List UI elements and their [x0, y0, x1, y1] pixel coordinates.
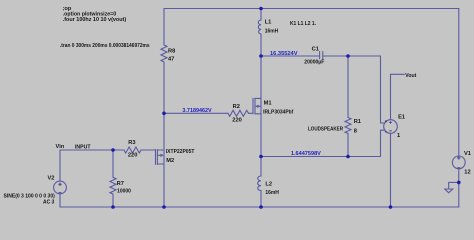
- voltage source V2 circle: [54, 181, 67, 194]
- svg-text:1.6447598V: 1.6447598V: [291, 151, 321, 157]
- resistor R8: [161, 45, 167, 62]
- ground tap wire: [449, 182, 459, 189]
- junction input R7: [111, 148, 115, 152]
- wire M2 drain-source rail: [163, 113, 165, 207]
- wire R2 to M1 gate: [249, 112, 254, 114]
- E1 minus mark inside: [389, 130, 391, 132]
- wire L1 bottom lead: [260, 34, 262, 56]
- junction L2 ground: [259, 205, 263, 209]
- wire L2 top lead: [260, 157, 262, 177]
- svg-text:R7: R7: [117, 181, 124, 187]
- svg-text:IRLP3034Pbf: IRLP3034Pbf: [263, 110, 293, 116]
- capacitor C1: [319, 52, 321, 59]
- wire R8 top lead: [163, 9, 165, 46]
- svg-text:Vout: Vout: [405, 73, 416, 79]
- svg-text:V1: V1: [464, 151, 471, 157]
- svg-text:3.7189462V: 3.7189462V: [182, 108, 211, 114]
- resistor R1 loudspeaker: [345, 118, 351, 134]
- svg-text:220: 220: [232, 117, 242, 123]
- wire E1 control plus drop: [381, 56, 384, 123]
- voltage source V1 circle: [452, 156, 465, 169]
- svg-text:.four 100hz 10 10 v(vout): .four 100hz 10 10 v(vout): [63, 17, 127, 23]
- wire V2 top lead to Vin: [59, 150, 61, 181]
- wire R3 to M2 gate: [141, 149, 156, 151]
- svg-text:R1: R1: [354, 119, 361, 125]
- junction R7 ground: [111, 205, 115, 209]
- junction C1 R1 top: [346, 54, 350, 58]
- junction drain node: [259, 54, 263, 58]
- svg-text:20000µF: 20000µF: [304, 59, 324, 65]
- svg-text:.tran 0 300ms 200ms 0.00038146: .tran 0 300ms 200ms 0.00038146972ms: [60, 43, 150, 49]
- resistor R7: [110, 177, 116, 194]
- junction M2 ground: [162, 205, 166, 209]
- wire INPUT horizontal: [60, 149, 124, 151]
- resistor R2: [228, 110, 249, 116]
- V2 plus mark: [58, 183, 61, 186]
- svg-text:16.35524V: 16.35524V: [270, 51, 298, 57]
- wire L1 top lead: [260, 9, 262, 21]
- svg-text:220: 220: [128, 153, 137, 159]
- svg-text:16mH: 16mH: [265, 29, 279, 35]
- wire C1 right: [323, 55, 381, 57]
- junction gate node: [162, 112, 166, 116]
- svg-text:K1 L1 L2 1.: K1 L1 L2 1.: [290, 21, 316, 27]
- transistor M2 arrow: [160, 154, 164, 157]
- wire V2 bottom lead: [59, 194, 61, 207]
- E1 control plus mark: [385, 120, 387, 122]
- svg-text:8: 8: [354, 129, 357, 135]
- svg-text:1: 1: [397, 133, 400, 139]
- V1 minus mark: [457, 167, 460, 169]
- junction top rail L1: [259, 7, 263, 11]
- svg-text:IXTP22P05T: IXTP22P05T: [166, 149, 195, 155]
- wire node 16.35524V horizontal: [261, 55, 320, 57]
- E1 control minus mark: [385, 131, 387, 133]
- svg-text:47: 47: [168, 57, 174, 63]
- wire R1 top lead: [347, 56, 349, 118]
- V2 minus mark: [59, 192, 62, 194]
- wire main rail through M1: [260, 56, 262, 157]
- wire bottom rail: [60, 206, 459, 208]
- transistor M2: [155, 150, 157, 165]
- wire R8 bottom lead: [163, 62, 165, 113]
- wire Vout stub: [391, 73, 405, 75]
- svg-text:AC 3: AC 3: [43, 199, 54, 205]
- wire right rail: [458, 9, 460, 157]
- svg-text:L1: L1: [265, 20, 272, 26]
- svg-text:C1: C1: [312, 47, 319, 53]
- wire E1 top pin: [390, 74, 392, 119]
- wire E1 control minus rise: [381, 130, 384, 156]
- inductor L2: [258, 176, 261, 191]
- junction E1 ground: [389, 205, 393, 209]
- svg-text:16mH: 16mH: [265, 190, 279, 196]
- resistor R3: [124, 147, 141, 153]
- svg-text:L2: L2: [265, 182, 272, 188]
- svg-text:R8: R8: [168, 49, 175, 55]
- svg-text:E1: E1: [398, 114, 405, 120]
- dependent source E1 circle: [384, 120, 398, 134]
- wire E1 bottom pin: [390, 133, 392, 207]
- E1 plus mark inside: [389, 121, 391, 123]
- V1 plus mark: [457, 156, 460, 159]
- transistor M1 arrow: [255, 105, 259, 108]
- junction R1 bottom: [346, 155, 350, 159]
- svg-text:LOUDSPEAKER: LOUDSPEAKER: [308, 126, 343, 132]
- wire V1 bottom branch: [458, 169, 460, 207]
- svg-text:V2: V2: [48, 176, 55, 182]
- svg-text:10000: 10000: [117, 189, 131, 195]
- svg-text:INPUT: INPUT: [75, 144, 91, 150]
- wire top rail: [164, 8, 459, 10]
- svg-text:R3: R3: [128, 140, 135, 146]
- ground symbol: [445, 189, 453, 193]
- svg-text:R2: R2: [233, 104, 240, 110]
- junction source node: [259, 155, 263, 159]
- wire R7 bottom lead: [112, 194, 114, 207]
- wire R7 top lead: [112, 150, 114, 178]
- wire R1 bottom lead: [347, 134, 349, 157]
- junction V1 ground tap: [457, 181, 461, 185]
- wire node 3.7189462V horizontal: [164, 112, 228, 114]
- inductor L1: [258, 20, 261, 34]
- wire node 1.6447598V horizontal: [261, 156, 381, 158]
- wire L2 bottom lead: [260, 191, 262, 208]
- transistor M1: [252, 98, 254, 114]
- svg-text:M2: M2: [166, 158, 174, 164]
- svg-text:12: 12: [464, 170, 470, 176]
- svg-text:Vin: Vin: [56, 144, 65, 150]
- svg-text:M1: M1: [264, 100, 272, 106]
